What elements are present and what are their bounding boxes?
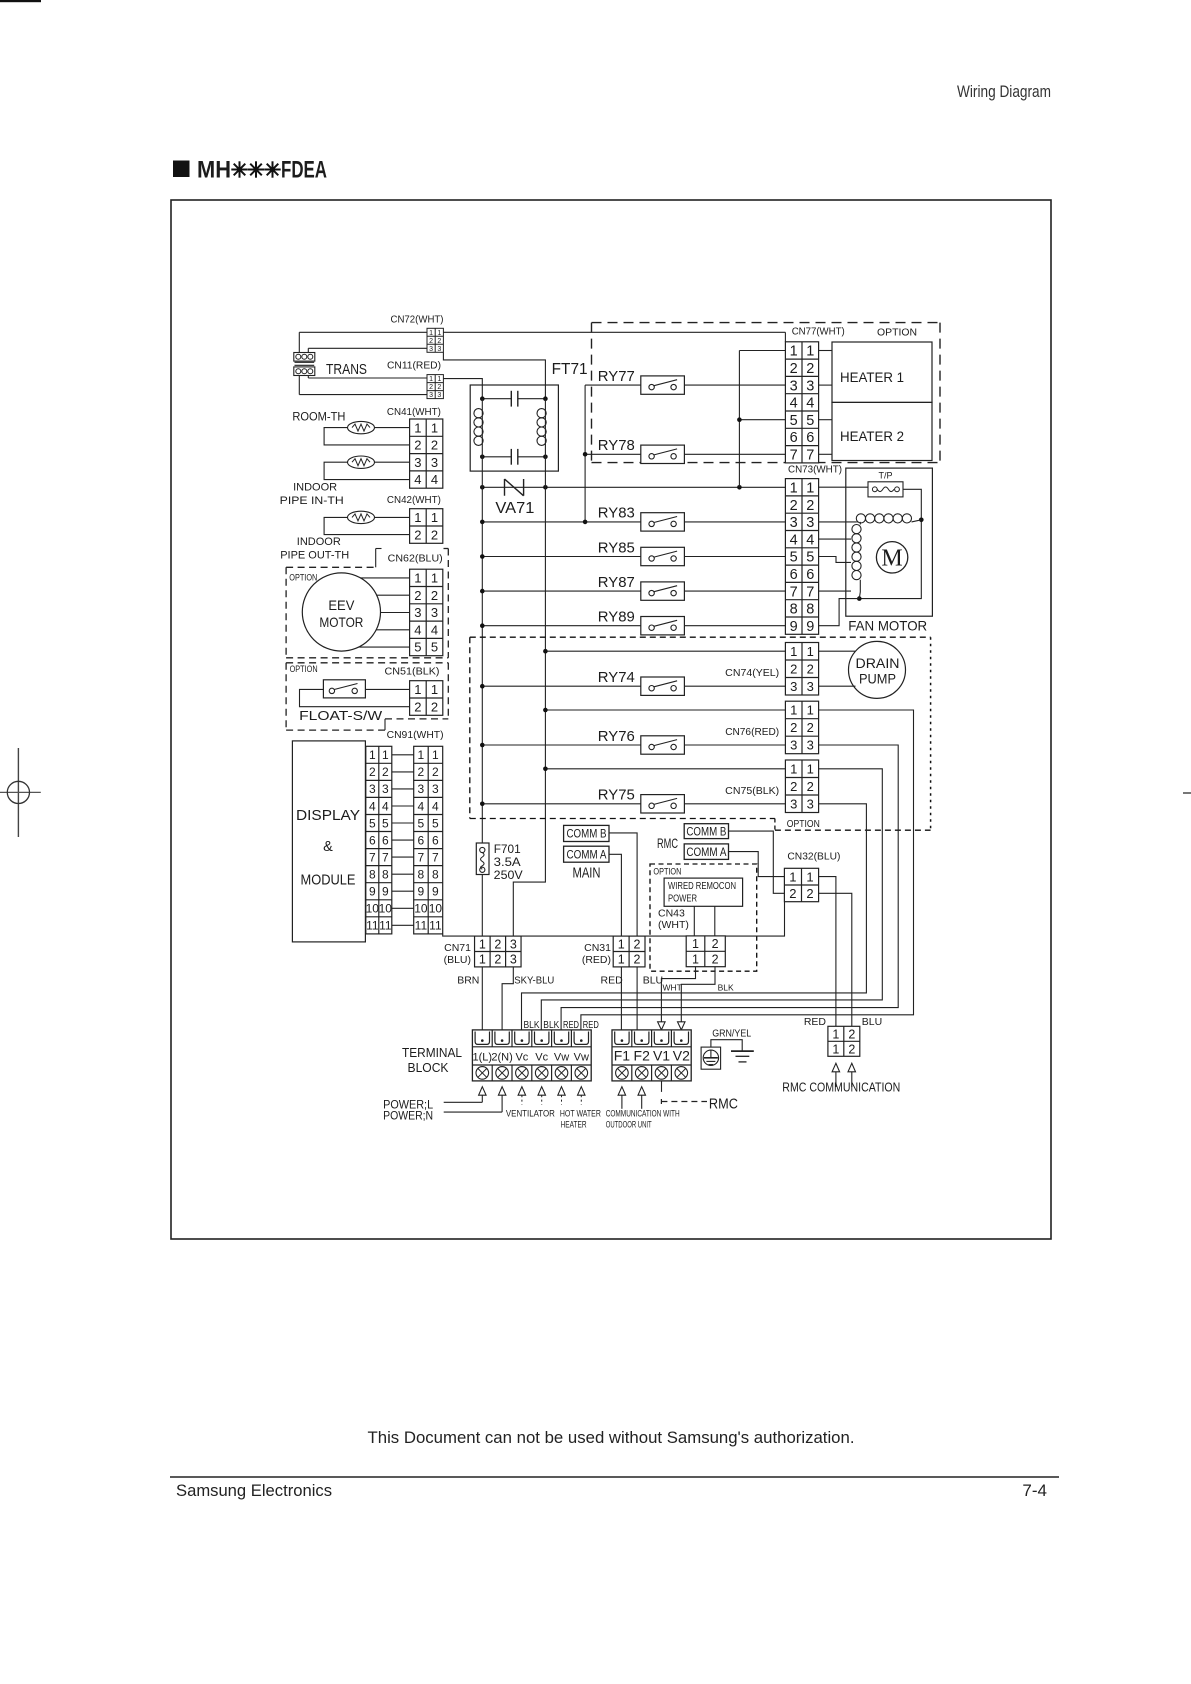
svg-text:1: 1 [790, 481, 798, 497]
svg-text:CN72(WHT): CN72(WHT) [391, 314, 444, 326]
svg-text:1: 1 [431, 682, 438, 697]
svg-text:7: 7 [432, 850, 439, 864]
option box WIRED REMOCON dashed [650, 864, 757, 971]
wire RY85 left [482, 556, 641, 558]
svg-text:RED: RED [563, 1019, 579, 1031]
svg-text:CN91(WHT): CN91(WHT) [387, 729, 444, 741]
svg-text:CN43: CN43 [658, 907, 685, 919]
svg-text:1: 1 [418, 748, 425, 762]
svg-text:3: 3 [414, 605, 421, 620]
svg-text:INDOOR: INDOOR [297, 536, 341, 548]
svg-text:3: 3 [437, 392, 441, 399]
svg-text:OPTION: OPTION [653, 867, 681, 878]
svg-text:1: 1 [431, 420, 438, 435]
svg-text:2: 2 [806, 498, 814, 514]
svg-text:4: 4 [414, 622, 421, 637]
wire CN76 pin3 to terminal Vw5 [561, 745, 898, 1030]
relay RY77 (ry77) [598, 368, 685, 394]
svg-text:2: 2 [806, 886, 813, 901]
svg-text:4: 4 [382, 799, 389, 813]
svg-text:RY89: RY89 [598, 609, 635, 626]
dashed RMC bracket [661, 1099, 707, 1104]
svg-text:2: 2 [494, 937, 501, 951]
connector CN51(BLK) [410, 681, 443, 716]
svg-text:(BLU): (BLU) [444, 954, 471, 966]
svg-text:BLK: BLK [524, 1019, 540, 1031]
title bullet square [173, 161, 190, 178]
svg-text:9: 9 [418, 885, 425, 899]
svg-text:BLK: BLK [718, 983, 734, 993]
wire RY78 left [585, 453, 641, 455]
svg-text:2: 2 [790, 720, 797, 735]
svg-text:4: 4 [790, 396, 798, 412]
wire CN32 pin1 to RMC connector [819, 877, 836, 1027]
registration mark left [0, 748, 41, 837]
svg-text:OPTION: OPTION [787, 818, 820, 830]
svg-text:COMM A: COMM A [567, 849, 607, 861]
connector RMC communication [828, 1026, 860, 1056]
svg-text:3: 3 [790, 679, 797, 694]
svg-text:5: 5 [806, 550, 814, 566]
relay RY83 (ry83) [598, 505, 685, 531]
wire CN43 pin2 to V2 arrow (BLK) [681, 966, 715, 1021]
svg-text:DRAIN: DRAIN [856, 656, 900, 671]
svg-text:7: 7 [369, 850, 376, 864]
svg-text:RED: RED [601, 975, 624, 987]
motor M circle [876, 542, 907, 573]
svg-text:5: 5 [431, 640, 438, 655]
svg-text:PUMP: PUMP [859, 672, 896, 687]
svg-text:3: 3 [382, 782, 389, 796]
svg-text:1: 1 [432, 748, 439, 762]
svg-text:RMC: RMC [709, 1095, 738, 1112]
svg-text:4: 4 [806, 396, 814, 412]
svg-text:CN74(YEL): CN74(YEL) [725, 667, 779, 679]
svg-text:1: 1 [618, 937, 625, 951]
svg-text:INDOOR: INDOOR [293, 482, 337, 494]
svg-text:2: 2 [712, 953, 719, 967]
svg-text:BLOCK: BLOCK [408, 1060, 449, 1075]
wire CN73 pin1 to T/P [819, 486, 868, 488]
svg-text:Samsung Electronics: Samsung Electronics [176, 1481, 332, 1500]
transformer TRANS symbol [294, 353, 315, 376]
relay RY75 (ry75) [598, 787, 685, 813]
svg-text:POWER;N: POWER;N [383, 1108, 433, 1122]
svg-text:RY74: RY74 [598, 669, 635, 686]
svg-text:3: 3 [790, 378, 798, 394]
svg-text:1: 1 [692, 953, 699, 967]
page corner crop bar [0, 0, 41, 2]
svg-text:HOT WATER: HOT WATER [560, 1108, 601, 1118]
svg-text:8: 8 [382, 868, 389, 882]
relay RY85 (ry85) [598, 539, 685, 565]
connector CN71(BLU) [475, 936, 522, 967]
svg-text:V2: V2 [673, 1048, 690, 1064]
svg-text:2: 2 [437, 384, 441, 391]
fan motor horizontal coil [856, 514, 921, 523]
svg-text:2: 2 [414, 588, 421, 603]
svg-text:2: 2 [634, 937, 641, 951]
svg-text:1: 1 [807, 761, 814, 776]
svg-text:2(N): 2(N) [491, 1052, 512, 1064]
svg-text:CN62(BLU): CN62(BLU) [388, 552, 443, 564]
svg-text:5: 5 [418, 816, 425, 830]
wire RY76 to CN76 pin3 [684, 744, 785, 746]
svg-text:MAIN: MAIN [573, 864, 601, 881]
wire CN77 pin1 feed [739, 350, 785, 352]
svg-text:CN11(RED): CN11(RED) [387, 360, 441, 372]
svg-text:OUTDOOR UNIT: OUTDOOR UNIT [606, 1120, 652, 1130]
svg-text:5: 5 [790, 413, 798, 429]
svg-text:3: 3 [369, 782, 376, 796]
connector CN43(WHT) [686, 936, 725, 967]
option box FLOAT dashed [286, 663, 448, 730]
varistor VA71 symbol [505, 479, 524, 496]
option box HEATER dashed [592, 323, 941, 463]
svg-text:CN42(WHT): CN42(WHT) [387, 494, 441, 506]
svg-text:3: 3 [807, 796, 814, 811]
svg-text:8: 8 [790, 602, 798, 618]
svg-text:RMC COMMUNICATION: RMC COMMUNICATION [782, 1080, 900, 1095]
thermistor indoor pipe-out sensor [348, 511, 375, 523]
wires EEV to CN62 [359, 578, 409, 647]
wires remocon power to CN43 [693, 906, 695, 936]
svg-text:6: 6 [806, 567, 814, 583]
svg-text:4: 4 [369, 799, 376, 813]
wire RY74 left [482, 685, 641, 687]
svg-text:3: 3 [510, 953, 517, 967]
fan motor vertical coil [852, 522, 861, 599]
svg-text:F2: F2 [634, 1048, 651, 1064]
svg-text:6: 6 [790, 567, 798, 583]
svg-text:HEATER 1: HEATER 1 [840, 370, 904, 385]
svg-text:RY77: RY77 [598, 368, 635, 385]
svg-text:RY75: RY75 [598, 787, 635, 804]
wire CN73 pin5 tap [819, 557, 851, 563]
svg-text:3: 3 [431, 605, 438, 620]
wire N rail to CN76 pin1 [545, 709, 785, 711]
svg-text:DISPLAY: DISPLAY [296, 808, 360, 824]
diagram border [171, 200, 1051, 1239]
svg-text:3: 3 [429, 392, 433, 399]
svg-text:9: 9 [432, 885, 439, 899]
svg-text:HEATER 2: HEATER 2 [840, 429, 904, 444]
svg-text:3: 3 [437, 346, 441, 353]
svg-text:FLOAT-S/W: FLOAT-S/W [299, 709, 382, 723]
svg-text:OPTION: OPTION [289, 572, 317, 583]
svg-text:EEV: EEV [328, 597, 355, 613]
wire RY87 left [482, 590, 641, 592]
wire RY78 to CN77 pin7 [684, 453, 785, 455]
svg-text:9: 9 [369, 885, 376, 899]
left rail below fuse to CN71 pin1 [481, 875, 483, 937]
svg-text:This Document can not be used: This Document can not be used without Sa… [368, 1428, 855, 1447]
wire RY83 to CN73 pin3 [684, 521, 785, 523]
svg-text:RMC: RMC [657, 835, 678, 851]
svg-text:1: 1 [692, 937, 699, 951]
svg-text:3: 3 [790, 738, 797, 753]
left power rail L [481, 399, 483, 843]
svg-text:SKY-BLU: SKY-BLU [514, 975, 554, 987]
right power rail N [513, 399, 545, 936]
wire N rail to CN74 pin1 [545, 650, 785, 652]
wire RY75 left [482, 803, 641, 805]
svg-text:6: 6 [418, 833, 425, 847]
svg-text:3: 3 [807, 679, 814, 694]
svg-text:CN73(WHT): CN73(WHT) [788, 464, 842, 476]
svg-text:3: 3 [429, 346, 433, 353]
svg-text:1: 1 [832, 1042, 839, 1056]
svg-text:2: 2 [382, 765, 389, 779]
svg-text:FT71: FT71 [552, 361, 588, 378]
relay RY89 (ry89) [598, 609, 685, 635]
wire RY85 to CN73 pin5 [684, 556, 785, 558]
svg-text:4: 4 [790, 532, 798, 548]
wire CN73 pin7 tap [819, 590, 851, 592]
fan motor box [846, 468, 933, 616]
svg-text:5: 5 [414, 640, 421, 655]
svg-text:7: 7 [806, 448, 814, 464]
thermistor room sensor [348, 421, 375, 433]
svg-text:8: 8 [418, 868, 425, 882]
svg-text:WIRED REMOCON: WIRED REMOCON [668, 880, 736, 892]
connector CN32(BLU) [784, 868, 818, 901]
svg-text:4: 4 [431, 472, 438, 487]
arrow down V2 [678, 1022, 686, 1030]
svg-text:1: 1 [618, 953, 625, 967]
svg-text:ROOM-TH: ROOM-TH [292, 412, 345, 424]
comm box COMM B (RMC) [684, 824, 728, 839]
svg-text:4: 4 [806, 532, 814, 548]
svg-text:F1: F1 [614, 1048, 631, 1064]
svg-text:Vc: Vc [515, 1052, 528, 1064]
wire CN11 pin1 to FT71 left rail [443, 379, 482, 399]
wire CN73 pin3 to coil [819, 521, 857, 523]
svg-text:4: 4 [431, 622, 438, 637]
svg-text:COMM A: COMM A [686, 847, 726, 859]
svg-text:CN77(WHT): CN77(WHT) [792, 326, 845, 338]
svg-text:(RED): (RED) [582, 954, 611, 966]
line filter FT71 box [470, 385, 558, 471]
svg-text:PIPE IN-TH: PIPE IN-TH [280, 495, 344, 507]
terminal arrows TB1 [479, 1087, 585, 1096]
svg-text:2: 2 [807, 720, 814, 735]
svg-text:2: 2 [431, 527, 438, 542]
terminal arrows TB2 F1 F2 [618, 1087, 626, 1096]
svg-text:1: 1 [414, 571, 421, 586]
svg-text:1: 1 [806, 344, 814, 360]
wire RY77 left [585, 384, 641, 386]
svg-text:1: 1 [789, 869, 796, 884]
wire CN77 pin5 feed [739, 419, 785, 421]
svg-text:POWER: POWER [668, 892, 697, 904]
svg-text:2: 2 [437, 338, 441, 345]
svg-text:CN31: CN31 [584, 942, 611, 954]
svg-text:F701: F701 [494, 842, 521, 856]
svg-text:4: 4 [414, 472, 421, 487]
svg-text:3: 3 [806, 515, 814, 531]
svg-text:3: 3 [806, 378, 814, 394]
svg-text:RY87: RY87 [598, 574, 635, 591]
svg-text:CN51(BLK): CN51(BLK) [385, 666, 440, 678]
svg-text:2: 2 [431, 588, 438, 603]
wire N rail to CN75 pin1 [545, 768, 785, 770]
svg-text:2: 2 [712, 937, 719, 951]
display module box [292, 741, 365, 942]
connector CN73(WHT) [785, 479, 818, 635]
wires CN74 to drain pump [819, 651, 856, 686]
svg-text:1: 1 [807, 644, 814, 659]
relay rail RY77/RY78 [584, 385, 586, 522]
svg-text:5: 5 [806, 413, 814, 429]
wire CN71 pin3 to terminal N [502, 967, 513, 1030]
svg-text:1: 1 [414, 420, 421, 435]
wire CN31 pin1 to terminal F1 [620, 967, 622, 1030]
wire RY74 to CN74 pin3 [684, 685, 785, 687]
svg-text:2: 2 [431, 699, 438, 714]
svg-text:COMM B: COMM B [567, 829, 607, 841]
svg-text:1: 1 [790, 344, 798, 360]
relay RY87 (ry87) [598, 574, 685, 600]
svg-text:2: 2 [414, 527, 421, 542]
svg-text:Vw: Vw [574, 1052, 589, 1064]
svg-text:3: 3 [510, 937, 517, 951]
svg-text:RY76: RY76 [598, 728, 635, 745]
svg-text:Vw: Vw [554, 1052, 569, 1064]
svg-text:1: 1 [369, 748, 376, 762]
wires CN91 pin links [392, 755, 414, 926]
thermistor indoor pipe-in sensor [348, 456, 375, 468]
wire RY89 to CN73 pin9 [684, 625, 785, 627]
svg-text:2: 2 [848, 1042, 855, 1056]
connector CN74(YEL) [785, 643, 818, 696]
svg-text:1: 1 [806, 481, 814, 497]
comm box COMM A (RMC) [684, 844, 728, 860]
fuse F701 [476, 843, 489, 875]
svg-text:1: 1 [431, 510, 438, 525]
svg-text:2: 2 [806, 361, 814, 377]
svg-text:5: 5 [382, 816, 389, 830]
svg-text:Wiring Diagram: Wiring Diagram [957, 82, 1051, 101]
svg-text:3: 3 [418, 782, 425, 796]
earth terminal box [701, 1047, 721, 1069]
wire RY89 left [482, 625, 641, 627]
svg-text:11: 11 [379, 919, 392, 933]
svg-text:Vc: Vc [535, 1052, 548, 1064]
svg-text:M: M [881, 546, 902, 572]
footer rule [170, 1476, 1059, 1478]
svg-text:7: 7 [382, 850, 389, 864]
relay RY74 (ry74) [598, 669, 685, 695]
connector CN76(RED) [785, 701, 818, 754]
svg-text:WHT: WHT [663, 982, 682, 992]
svg-text:6: 6 [382, 833, 389, 847]
drain pump circle [849, 641, 906, 698]
connector CN11(RED) [427, 375, 443, 400]
svg-text:1: 1 [414, 510, 421, 525]
svg-text:T/P: T/P [878, 471, 892, 481]
svg-text:VENTILATOR: VENTILATOR [506, 1108, 555, 1118]
svg-text:V1: V1 [653, 1048, 670, 1064]
svg-text:7: 7 [790, 584, 798, 600]
wire CN43 pin1 to V1 arrow (WHT) [661, 966, 695, 1021]
svg-text:11: 11 [429, 919, 442, 933]
svg-text:FDEA: FDEA [281, 156, 327, 183]
svg-text:TERMINAL: TERMINAL [402, 1045, 462, 1060]
svg-text:&: & [323, 839, 333, 855]
svg-text:RY78: RY78 [598, 437, 635, 454]
junction dots VA71 rail crossings [480, 485, 485, 490]
svg-text:RY83: RY83 [598, 505, 635, 522]
svg-text:1: 1 [414, 682, 421, 697]
svg-text:2: 2 [431, 438, 438, 453]
wire RMC COMM A to CN32 pin1 [729, 852, 785, 877]
svg-text:OPTION: OPTION [290, 664, 318, 675]
svg-text:2: 2 [790, 779, 797, 794]
svg-text:5: 5 [432, 816, 439, 830]
svg-text:8: 8 [369, 868, 376, 882]
rail CN77 pin1/pin5 to CN73 pin1 [738, 351, 740, 488]
heater 1 box [832, 342, 932, 402]
svg-text:10: 10 [366, 902, 380, 916]
svg-text:7: 7 [806, 584, 814, 600]
svg-text:2: 2 [429, 384, 433, 391]
svg-text:2: 2 [432, 765, 439, 779]
svg-text:2: 2 [790, 498, 798, 514]
ground symbol [731, 1051, 754, 1062]
relay RY76 (ry76) [598, 728, 685, 754]
terminal block power/control [472, 1030, 591, 1081]
registration tick right [1183, 792, 1191, 794]
wire CN71 pin1 to terminal L [481, 967, 483, 1030]
svg-text:250V: 250V [494, 868, 523, 882]
svg-text:FAN MOTOR: FAN MOTOR [848, 617, 927, 633]
wire display bus to CN32 [443, 902, 785, 936]
svg-text:6: 6 [369, 833, 376, 847]
svg-text:CN71: CN71 [444, 942, 471, 954]
wire RY83 left (from left rail) [482, 521, 641, 523]
svg-text:GRN/YEL: GRN/YEL [712, 1028, 751, 1040]
svg-text:(WHT): (WHT) [658, 919, 689, 931]
svg-text:2: 2 [634, 953, 641, 967]
wire RY87 to CN73 pin7 [684, 590, 785, 592]
svg-text:2: 2 [790, 361, 798, 377]
wire CN73 pin9 to motor common [819, 599, 860, 626]
svg-text:10: 10 [414, 902, 428, 916]
connector CN42(WHT) [410, 509, 443, 544]
thermistor indoor pipe-out wires [324, 517, 410, 534]
connector CN41(WHT) [410, 419, 443, 488]
svg-text:COMM B: COMM B [686, 827, 726, 839]
heater 2 box [832, 402, 932, 460]
EEV motor circle [302, 573, 380, 651]
svg-text:PIPE OUT-TH: PIPE OUT-TH [280, 550, 349, 562]
svg-text:2: 2 [414, 438, 421, 453]
svg-text:MODULE: MODULE [301, 873, 356, 889]
svg-text:7: 7 [790, 448, 798, 464]
svg-text:3: 3 [414, 455, 421, 470]
svg-text:CN75(BLK): CN75(BLK) [725, 785, 779, 797]
svg-text:5: 5 [790, 550, 798, 566]
svg-text:1: 1 [431, 571, 438, 586]
svg-text:8: 8 [432, 868, 439, 882]
svg-text:10: 10 [429, 902, 443, 916]
svg-text:3.5A: 3.5A [494, 855, 521, 869]
svg-text:1: 1 [832, 1027, 839, 1041]
svg-text:BLU: BLU [862, 1016, 882, 1028]
svg-text:7: 7 [418, 850, 425, 864]
svg-text:1: 1 [382, 748, 389, 762]
